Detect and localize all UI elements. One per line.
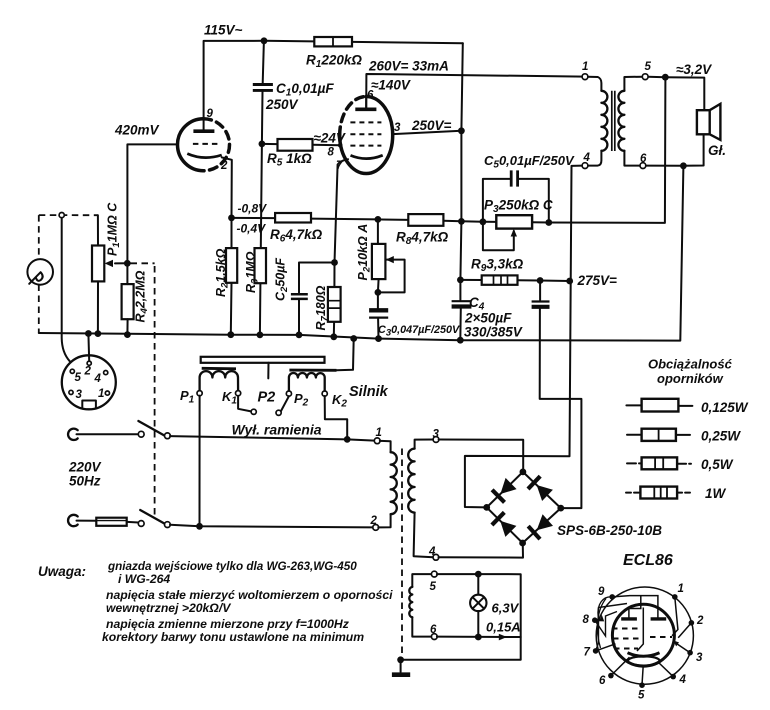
svg-text:napięcia stałe mierzyć woltomi: napięcia stałe mierzyć woltomierzem o op… [106, 588, 393, 602]
svg-text:≈140V: ≈140V [371, 78, 411, 93]
svg-text:3: 3 [696, 652, 703, 664]
svg-text:Wył. ramienia: Wył. ramienia [232, 422, 322, 438]
svg-text:6: 6 [599, 675, 606, 687]
svg-text:3: 3 [394, 122, 401, 134]
svg-text:R64,7kΩ: R64,7kΩ [270, 227, 323, 245]
svg-text:wewnętrznej >20kΩ/V: wewnętrznej >20kΩ/V [106, 601, 231, 615]
svg-text:2: 2 [696, 615, 704, 627]
svg-text:R1220kΩ: R1220kΩ [306, 53, 362, 71]
svg-text:Silnik: Silnik [349, 384, 389, 400]
svg-text:2: 2 [370, 515, 378, 527]
svg-text:R93,3kΩ: R93,3kΩ [471, 257, 524, 275]
svg-text:P2: P2 [258, 390, 276, 406]
svg-text:6: 6 [367, 90, 374, 102]
svg-text:6: 6 [430, 624, 437, 636]
svg-text:4: 4 [679, 674, 687, 686]
svg-text:275V=: 275V= [577, 273, 618, 288]
svg-text:≈3,2V: ≈3,2V [676, 62, 712, 77]
svg-text:5: 5 [75, 372, 82, 384]
svg-text:R5 1kΩ: R5 1kΩ [267, 151, 312, 169]
svg-text:3: 3 [433, 429, 440, 441]
svg-text:250V: 250V [265, 97, 299, 112]
svg-text:220V: 220V [68, 460, 102, 475]
svg-text:R84,7kΩ: R84,7kΩ [396, 230, 449, 248]
svg-text:260V= 33mA: 260V= 33mA [368, 59, 449, 74]
svg-text:Obciążalność: Obciążalność [648, 357, 733, 372]
svg-text:1: 1 [376, 427, 382, 439]
svg-text:4: 4 [428, 546, 436, 558]
svg-text:0,5W: 0,5W [701, 457, 734, 472]
svg-text:9: 9 [207, 108, 214, 120]
svg-text:ECL86: ECL86 [623, 552, 673, 569]
svg-text:6: 6 [640, 153, 647, 165]
svg-text:5: 5 [638, 690, 645, 702]
svg-text:C10,01µF: C10,01µF [276, 81, 334, 99]
svg-text:3: 3 [76, 389, 83, 401]
svg-text:1: 1 [678, 583, 684, 595]
svg-text:50Hz: 50Hz [69, 474, 101, 489]
svg-text:2×50µF: 2×50µF [464, 311, 512, 326]
svg-text:i WG-264: i WG-264 [118, 572, 170, 586]
svg-text:2: 2 [220, 160, 228, 172]
svg-text:SPS-6B-250-10B: SPS-6B-250-10B [557, 523, 662, 538]
svg-text:≈24V: ≈24V [314, 131, 346, 146]
svg-text:0,25W: 0,25W [701, 429, 741, 444]
svg-text:2: 2 [84, 366, 92, 378]
svg-text:1: 1 [582, 61, 588, 73]
svg-text:330/385V: 330/385V [464, 325, 523, 340]
svg-text:5: 5 [645, 61, 652, 73]
svg-text:7: 7 [336, 160, 343, 172]
svg-text:4: 4 [94, 373, 102, 385]
svg-text:1W: 1W [705, 486, 727, 501]
svg-text:8: 8 [328, 147, 335, 159]
svg-text:420mV: 420mV [114, 123, 160, 138]
svg-text:7: 7 [584, 647, 591, 659]
svg-text:Uwaga:: Uwaga: [38, 564, 86, 579]
svg-text:8: 8 [583, 614, 590, 626]
svg-text:6,3V: 6,3V [492, 601, 520, 616]
svg-text:korektory barwy tonu ustawlone: korektory barwy tonu ustawlone na minimu… [102, 630, 364, 644]
svg-text:oporników: oporników [657, 371, 724, 386]
svg-text:0,15A: 0,15A [486, 620, 521, 635]
svg-text:250V=: 250V= [411, 118, 452, 133]
svg-text:0,125W: 0,125W [701, 400, 749, 415]
svg-text:5: 5 [430, 581, 437, 593]
svg-text:115V~: 115V~ [204, 23, 243, 38]
svg-text:Gł.: Gł. [708, 143, 726, 158]
svg-text:1: 1 [98, 388, 104, 400]
svg-text:-0,4V: -0,4V [237, 222, 267, 236]
svg-text:-0,8V: -0,8V [238, 202, 268, 216]
svg-text:4: 4 [583, 152, 591, 164]
svg-text:9: 9 [598, 586, 605, 598]
svg-text:napięcia zmienne mierzone przy: napięcia zmienne mierzone przy f=1000Hz [106, 617, 350, 631]
